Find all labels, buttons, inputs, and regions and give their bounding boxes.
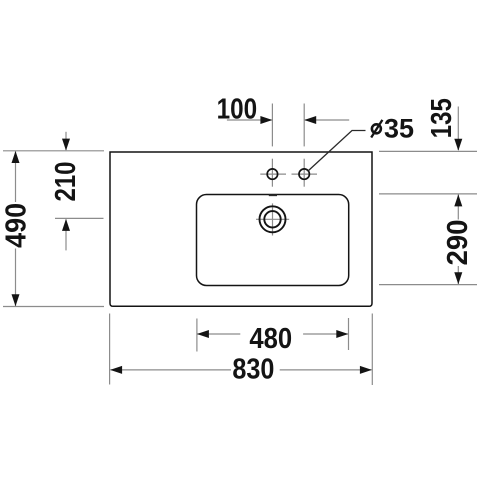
svg-text:135: 135 (426, 98, 458, 138)
faucet hole left (260, 159, 286, 187)
dimension 135 (379, 98, 477, 151)
faucet hole right (292, 159, 318, 187)
basin (197, 195, 349, 286)
dimension 490 (0, 151, 104, 307)
dimension 830 (110, 314, 373, 386)
dimension 480 (197, 318, 349, 355)
drain hole (256, 195, 289, 235)
svg-text:490: 490 (0, 203, 32, 248)
svg-text:480: 480 (249, 323, 292, 355)
sink outline (110, 152, 372, 306)
svg-text:35: 35 (384, 113, 414, 143)
svg-text:210: 210 (50, 162, 82, 202)
dimension 100 (217, 94, 350, 147)
dimension 290 (379, 194, 477, 285)
svg-text:100: 100 (217, 94, 258, 126)
svg-text:830: 830 (232, 354, 274, 386)
svg-text:290: 290 (442, 220, 474, 266)
dimension 210 (50, 132, 103, 251)
label diameter 35 with leader (308, 113, 414, 171)
